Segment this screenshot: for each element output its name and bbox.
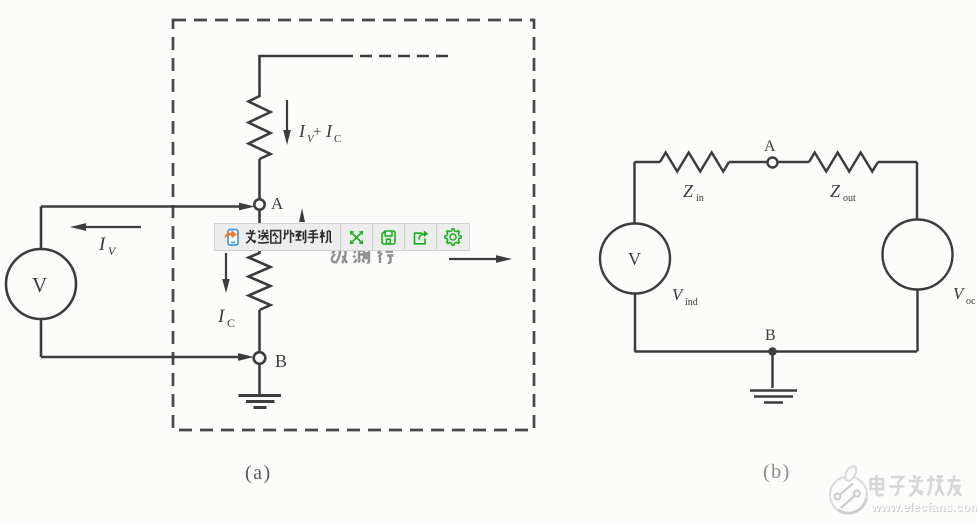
svg-text:I: I [325,121,333,141]
svg-text:B: B [275,351,287,371]
svg-text:A: A [271,194,284,213]
svg-text:in: in [696,193,704,204]
svg-text:oc: oc [966,296,976,307]
svg-text:V: V [32,273,47,297]
svg-text:V: V [953,284,966,303]
svg-text:out: out [843,193,856,204]
svg-text:Z: Z [830,181,841,201]
svg-text:www.elecfans.com: www.elecfans.com [870,500,977,514]
svg-text:C: C [334,133,341,145]
svg-text:A: A [764,138,776,155]
svg-text:B: B [765,327,776,344]
svg-text:V: V [108,244,117,258]
svg-text:(a): (a) [245,462,272,484]
svg-text:ind: ind [685,297,698,308]
svg-text:I: I [298,121,306,141]
svg-text:V: V [628,249,641,269]
svg-text:I: I [217,306,226,327]
svg-text:I: I [98,234,107,255]
svg-text:Z: Z [683,181,694,201]
svg-text:+: + [313,124,321,140]
svg-text:V: V [672,285,685,304]
svg-text:C: C [227,316,235,330]
svg-text:(b): (b) [763,461,791,483]
